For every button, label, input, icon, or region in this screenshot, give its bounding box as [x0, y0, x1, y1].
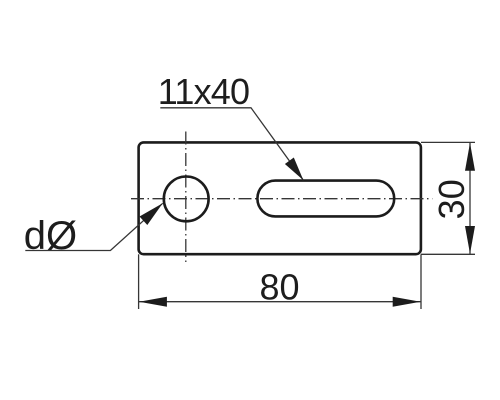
- dimension line 80: [139, 301, 421, 303]
- svg-text:30: 30: [431, 179, 472, 219]
- vertical centerline: [185, 132, 187, 263]
- horizontal centerline: [131, 198, 432, 200]
- dimension line 30: [469, 142, 471, 254]
- arrowhead 80 left: [139, 297, 167, 307]
- hole circle: [164, 177, 209, 222]
- extension line bottom right vertical: [420, 254, 422, 309]
- svg-text:dØ: dØ: [24, 214, 77, 258]
- extension line bottom left: [138, 254, 140, 309]
- svg-text:11x40: 11x40: [158, 71, 249, 112]
- arrowhead 80 right: [393, 297, 421, 307]
- arrowhead 30 up: [465, 143, 475, 171]
- arrowhead dØ: [140, 203, 163, 225]
- leader line dØ: [25, 203, 162, 250]
- extension line bottom right: [421, 253, 475, 255]
- leader line 11x40: [160, 108, 303, 180]
- arrowhead 11x40: [285, 158, 304, 181]
- svg-text:80: 80: [259, 267, 299, 308]
- plate outline: [139, 142, 421, 254]
- extension line top right: [421, 141, 475, 143]
- slot 11x40: [257, 181, 394, 217]
- arrowhead 30 down: [465, 226, 475, 254]
